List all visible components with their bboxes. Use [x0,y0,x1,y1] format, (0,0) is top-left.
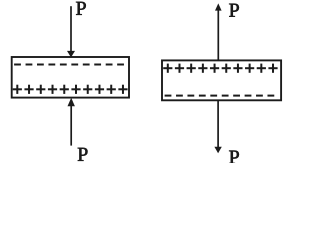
label P bottom-left [78,148,88,161]
crystal slab left (compression) [12,57,129,98]
force arrow P top-right (upward, stretching) [215,3,222,60]
force arrow P top-left (downward, compressing) [67,6,75,57]
negative charge row (left slab, top) [14,64,124,66]
positive charge row (left slab, bottom) [13,85,128,94]
force arrow P bottom-left (upward, compressing) [68,98,75,146]
label P bottom-right [229,151,239,164]
negative charge row (right slab, bottom) [165,95,275,97]
label P top-right [229,4,239,17]
positive charge row (right slab, top) [163,64,277,73]
label P top-left [76,2,86,15]
crystal slab right (tension) [162,60,281,100]
force arrow P bottom-right (downward, stretching) [214,100,221,153]
